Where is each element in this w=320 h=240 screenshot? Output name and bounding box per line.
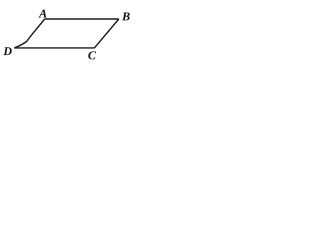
side AD (left edge) — [15, 19, 45, 48]
parallelogram ABCD geometry figure — [0, 0, 134, 68]
vertex label B — [122, 12, 130, 20]
side DC (bottom edge) — [14, 47, 94, 49]
side BC (right edge) — [94, 19, 118, 48]
vertex label C — [88, 51, 96, 59]
side AB (top edge) — [45, 18, 119, 20]
vertex label A — [38, 10, 46, 18]
vertex label D — [3, 47, 11, 55]
